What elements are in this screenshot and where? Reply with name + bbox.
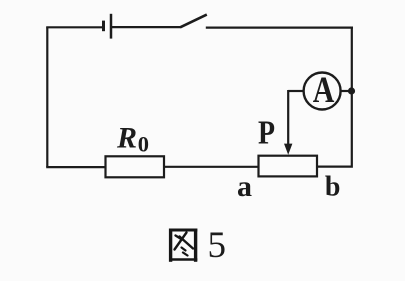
wire R0 to rheostat [164,166,260,168]
svg-text:A: A [313,70,335,110]
slider arrowhead [284,144,292,155]
svg-text:b: b [325,172,341,203]
svg-text:a: a [237,170,252,203]
caption glyph tu inner strokes [175,233,194,256]
wire slider vertical [287,90,289,146]
wire bottom left [46,166,106,168]
rheostat RP box [259,156,318,177]
wire ammeter left stub [288,90,304,92]
ammeter A1 circle [304,73,341,110]
wire right vertical [316,27,352,167]
wire top-left horizontal [46,26,102,28]
svg-text:P: P [258,113,275,151]
resistor R0 box [106,156,165,177]
node junction dot [348,87,355,94]
svg-text:0: 0 [138,131,149,156]
wire left vertical [46,27,48,167]
caption glyph tu outer box [169,229,197,262]
battery BT1 positive plate [110,14,113,39]
wire switch to top-right corner [206,27,353,29]
switch S1 blade [180,15,207,28]
svg-text:R: R [116,121,137,154]
wire ammeter right stub [340,90,352,92]
wire battery to switch [112,26,181,28]
battery BT1 negative plate [102,21,105,32]
svg-text:5: 5 [208,225,227,266]
